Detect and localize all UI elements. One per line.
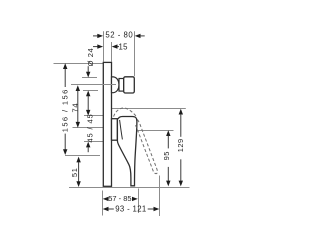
extension line base bottom y141.6 (84, 141, 104, 143)
extension line mid reference y155.2 (65, 155, 100, 157)
dimension chain Ø24 / 45 / 45 left (85, 48, 95, 153)
svg-text:57 - 85: 57 - 85 (108, 194, 131, 203)
extension line handle-front bottom x138.2 (138, 189, 140, 214)
dashed alt lever upper edge (136, 120, 158, 174)
handle base block (112, 119, 118, 141)
escutcheon plate (side view) (103, 62, 111, 186)
dimension 51 left (70, 157, 81, 187)
dimension 93-121 bottom (103, 205, 160, 214)
diverter knob dome (112, 77, 120, 93)
svg-text:93 - 121: 93 - 121 (115, 205, 146, 214)
extension line plate top y63 (54, 63, 104, 65)
dimension 15 top (93, 43, 128, 52)
extension line knob-front top (134, 31, 136, 76)
svg-text:15: 15 (119, 43, 129, 52)
extension line knob top y77.5 (82, 77, 97, 79)
dimension 57-85 bottom (103, 194, 138, 203)
svg-text:45 / 45: 45 / 45 (85, 113, 94, 142)
svg-text:74: 74 (70, 103, 79, 113)
svg-text:95: 95 (162, 151, 171, 160)
diverter knob body (124, 77, 135, 93)
extension line knob centerline y84.8 (71, 84, 116, 86)
extension line alt-handle top y108.5 (112, 108, 186, 110)
dimension 156/156 left (60, 63, 69, 155)
dimension 52-80 top (93, 30, 145, 39)
dimension 95 right (162, 130, 171, 186)
svg-text:129: 129 (176, 138, 185, 152)
extension line bottom reference y187 (69, 187, 190, 189)
extension line bottom-left x102.8 (102, 191, 104, 216)
svg-text:156 / 156: 156 / 156 (60, 88, 69, 132)
dimension 74 left (70, 85, 80, 128)
extension line pivot y127.8 (73, 127, 111, 129)
svg-text:52 - 80: 52 - 80 (105, 30, 133, 39)
dashed alt handle arc (114, 108, 137, 117)
diverter knob ring (119, 79, 124, 92)
extension line plate-right top (111, 42, 113, 62)
lever handle (solid) (117, 117, 136, 186)
extension line handle base top y115.8 (84, 115, 111, 117)
extension line handle front y130 (138, 130, 174, 132)
extension line knob bottom y90.5 (83, 90, 98, 92)
svg-text:51: 51 (70, 167, 79, 177)
lever inner detail line (120, 120, 123, 139)
svg-text:Ø 24: Ø 24 (86, 48, 95, 67)
dimension 129 right (176, 109, 185, 187)
extension line plate-left top (103, 31, 105, 62)
extension line lever-tip x159.6 (159, 176, 161, 217)
